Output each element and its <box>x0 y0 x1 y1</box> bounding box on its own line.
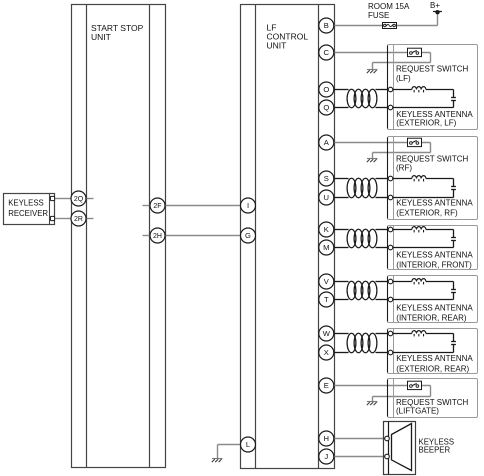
ground for request switch RF <box>367 159 378 163</box>
wire stub 2F <box>143 205 151 207</box>
svg-text:O: O <box>323 85 329 94</box>
lf control unit box <box>241 5 335 469</box>
lf control unit label <box>267 23 309 51</box>
request switch RF label <box>396 154 469 172</box>
svg-text:(RF): (RF) <box>396 164 412 173</box>
connector terminal W <box>319 326 334 341</box>
svg-text:(INTERIOR, REAR): (INTERIOR, REAR) <box>396 314 467 323</box>
connector terminal M <box>319 240 334 255</box>
connector terminal Q <box>319 100 334 115</box>
svg-text:M: M <box>323 243 329 252</box>
svg-text:U: U <box>324 193 329 202</box>
start stop unit right strip line <box>149 5 151 468</box>
svg-text:C: C <box>324 48 330 57</box>
fuse label <box>368 2 410 20</box>
connector terminal G <box>241 228 256 243</box>
connector terminal I <box>241 198 256 213</box>
keyless receiver pin lower <box>50 216 54 220</box>
wire receiver to 2Q <box>55 198 71 200</box>
lf control unit right strip line <box>318 5 320 469</box>
svg-text:G: G <box>245 231 251 240</box>
connector terminal 2R <box>71 211 86 226</box>
keyless antenna exterior rear label <box>396 354 473 373</box>
keyless antenna exterior LF pin upper <box>388 87 393 92</box>
svg-text:(LIFTGATE): (LIFTGATE) <box>396 406 439 415</box>
keyless beeper label <box>419 438 455 455</box>
start stop unit label <box>91 23 144 42</box>
twisted pair wire to keyless antenna exterior RF <box>334 178 388 197</box>
svg-text:K: K <box>324 225 329 234</box>
svg-text:I: I <box>247 201 249 210</box>
keyless antenna exterior RF label <box>396 199 473 218</box>
keyless antenna exterior RF pin upper <box>388 176 393 181</box>
svg-text:REQUEST SWITCH: REQUEST SWITCH <box>396 65 469 74</box>
keyless antenna exterior LF label <box>396 110 473 128</box>
connector terminal 2F <box>150 198 165 213</box>
svg-text:RECEIVER: RECEIVER <box>8 209 48 218</box>
wire E to request switch liftgate loop <box>334 386 431 402</box>
svg-text:2Q: 2Q <box>74 196 84 203</box>
keyless beeper box <box>384 422 416 475</box>
keyless antenna interior front pin upper <box>388 227 393 232</box>
keyless antenna interior front pin lower <box>388 245 393 250</box>
twisted pair wire to keyless antenna interior front <box>334 229 388 247</box>
keyless antenna exterior rear pin lower <box>388 350 393 355</box>
connector terminal O <box>319 82 334 97</box>
keyless antenna exterior rear coil and capacitor <box>393 331 456 353</box>
request switch LF symbol <box>408 48 422 56</box>
ground for request switch liftgate <box>367 402 378 406</box>
keyless antenna exterior LF coil and capacitor <box>393 87 456 108</box>
keyless antenna exterior LF pin lower <box>388 105 393 110</box>
svg-text:KEYLESS ANTENNA: KEYLESS ANTENNA <box>396 354 473 363</box>
request switch RF symbol <box>408 138 422 146</box>
svg-text:(EXTERIOR, RF): (EXTERIOR, RF) <box>396 209 458 218</box>
svg-text:2H: 2H <box>153 233 162 240</box>
svg-text:KEYLESS ANTENNA: KEYLESS ANTENNA <box>396 251 473 260</box>
twisted pair wire to keyless antenna exterior LF <box>334 89 388 107</box>
wire A to request switch RF loop <box>334 143 431 159</box>
svg-text:(LF): (LF) <box>396 74 411 83</box>
B+ terminal <box>433 10 442 14</box>
wire 2F to I <box>165 205 241 207</box>
svg-text:2F: 2F <box>153 203 161 210</box>
svg-text:(INTERIOR, FRONT): (INTERIOR, FRONT) <box>396 261 472 270</box>
connector terminal X <box>319 345 334 360</box>
svg-text:W: W <box>323 329 331 338</box>
keyless antenna interior rear label <box>396 304 473 323</box>
svg-text:UNIT: UNIT <box>267 41 287 51</box>
svg-text:T: T <box>324 295 329 304</box>
keyless antenna interior rear pin upper <box>388 279 393 284</box>
connector terminal 2H <box>150 228 165 243</box>
svg-text:(EXTERIOR, LF): (EXTERIOR, LF) <box>396 118 456 127</box>
fuse ROOM 15A <box>383 23 397 29</box>
connector terminal A <box>319 135 334 150</box>
request switch liftgate symbol <box>408 381 422 389</box>
keyless antenna exterior rear pin upper <box>388 331 393 336</box>
keyless antenna interior rear box <box>388 276 478 323</box>
keyless antenna interior rear coil and capacitor <box>393 279 456 300</box>
svg-text:KEYLESS ANTENNA: KEYLESS ANTENNA <box>396 304 473 313</box>
ground for LF control unit <box>212 459 223 463</box>
wire stub 2H <box>143 235 151 237</box>
connector terminal U <box>319 190 334 205</box>
keyless antenna interior rear pin lower <box>388 297 393 302</box>
connector terminal J <box>319 449 334 464</box>
connector terminal V <box>319 274 334 289</box>
request switch LF label <box>396 65 469 83</box>
keyless receiver pin upper <box>50 196 54 200</box>
svg-text:KEYLESS ANTENNA: KEYLESS ANTENNA <box>396 199 473 208</box>
connector terminal E <box>319 378 334 393</box>
svg-text:BEEPER: BEEPER <box>419 446 451 455</box>
keyless antenna interior front box <box>388 226 478 270</box>
wire stub 2Q <box>86 198 94 200</box>
connector terminal T <box>319 292 334 307</box>
start stop unit left strip line <box>86 5 88 468</box>
ground for request switch LF <box>367 70 378 74</box>
keyless antenna exterior rear box <box>388 329 478 374</box>
svg-text:(EXTERIOR, REAR): (EXTERIOR, REAR) <box>396 364 469 373</box>
connector terminal S <box>319 171 334 186</box>
keyless antenna interior front label <box>396 251 473 270</box>
svg-text:Q: Q <box>323 103 329 112</box>
request switch liftgate label <box>396 398 469 416</box>
keyless antenna interior front coil and capacitor <box>393 227 456 248</box>
lf control unit left strip line <box>255 5 257 469</box>
keyless beeper speaker symbol <box>392 424 412 471</box>
keyless beeper connector line <box>388 422 390 475</box>
svg-text:E: E <box>324 381 329 390</box>
wire 2H to G <box>165 235 241 237</box>
svg-text:ROOM 15A: ROOM 15A <box>368 2 410 11</box>
wire J to beeper <box>334 456 385 458</box>
keyless antenna exterior RF coil and capacitor <box>393 176 456 198</box>
wire H to beeper <box>334 438 385 440</box>
keyless receiver inner edge line <box>49 194 51 225</box>
keyless beeper pin H <box>385 436 390 441</box>
svg-text:B: B <box>324 21 329 30</box>
wire B to B+ via fuse <box>334 12 438 26</box>
request switch LF / keyless antenna exterior LF box <box>388 45 478 130</box>
wire C to request switch LF loop <box>334 53 431 70</box>
svg-text:UNIT: UNIT <box>91 32 111 42</box>
svg-text:KEYLESS: KEYLESS <box>8 198 44 207</box>
svg-text:REQUEST SWITCH: REQUEST SWITCH <box>396 154 469 163</box>
svg-text:FUSE: FUSE <box>368 11 389 20</box>
connector terminal K <box>319 222 334 237</box>
keyless receiver box <box>4 194 55 225</box>
wire L to ground <box>218 445 241 459</box>
svg-text:S: S <box>324 174 329 183</box>
request switch liftgate box <box>388 379 478 418</box>
svg-text:L: L <box>246 440 250 449</box>
wire stub 2R <box>86 218 94 220</box>
keyless antenna exterior RF pin lower <box>388 195 393 200</box>
svg-text:2R: 2R <box>74 216 83 223</box>
start stop unit box <box>72 5 166 468</box>
svg-text:H: H <box>324 434 329 443</box>
connector terminal 2Q <box>71 191 86 206</box>
keyless beeper pin J <box>385 454 390 459</box>
twisted pair wire to keyless antenna interior rear <box>334 281 388 299</box>
svg-text:B+: B+ <box>430 1 440 10</box>
twisted pair wire to keyless antenna exterior rear <box>334 333 388 352</box>
connector terminal H <box>319 431 334 446</box>
keyless receiver label <box>8 198 48 218</box>
svg-text:J: J <box>324 452 328 461</box>
connector terminal B <box>319 18 334 33</box>
wire receiver to 2R <box>55 218 71 220</box>
connector terminal C <box>319 45 334 60</box>
connector terminal L <box>241 437 256 452</box>
request switch RF / keyless antenna exterior RF box <box>388 137 478 220</box>
svg-text:X: X <box>324 348 329 357</box>
